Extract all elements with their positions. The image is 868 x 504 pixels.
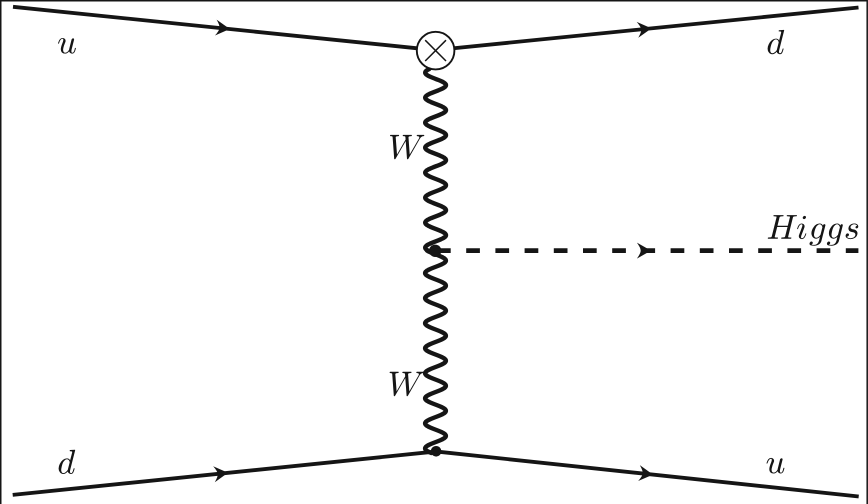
label d (top-right) [768, 30, 785, 54]
wire: outgoing quark line u (bottom-right) [438, 452, 859, 497]
wire: Higgs dashed propagator [437, 248, 858, 253]
vertex dot: lower quark-W coupling [431, 446, 442, 457]
label d (bottom-left) [59, 450, 76, 474]
arrowhead on d line [637, 20, 653, 37]
wire: incoming quark line d (bottom-left) [13, 452, 434, 495]
vertex: effective coupling crossed circle [417, 32, 455, 70]
label W (lower) [390, 372, 424, 396]
boson W1: upper wavy propagator [425, 69, 446, 252]
label Higgs [768, 215, 859, 246]
label u (top-left) [58, 38, 76, 54]
arrowhead on Higgs line [637, 243, 651, 259]
vertex dot: WWH coupling [429, 245, 441, 257]
wire: incoming quark line u (top-left) [13, 7, 421, 49]
wire: outgoing quark line d (top-right) [450, 8, 859, 49]
boson W2: lower wavy propagator [425, 251, 446, 454]
arrowhead on u line [215, 20, 231, 37]
arrowhead on lower u line [638, 465, 654, 482]
arrowhead on lower d line [213, 465, 229, 482]
label W (upper) [390, 135, 424, 159]
label u (bottom-right) [767, 458, 785, 474]
